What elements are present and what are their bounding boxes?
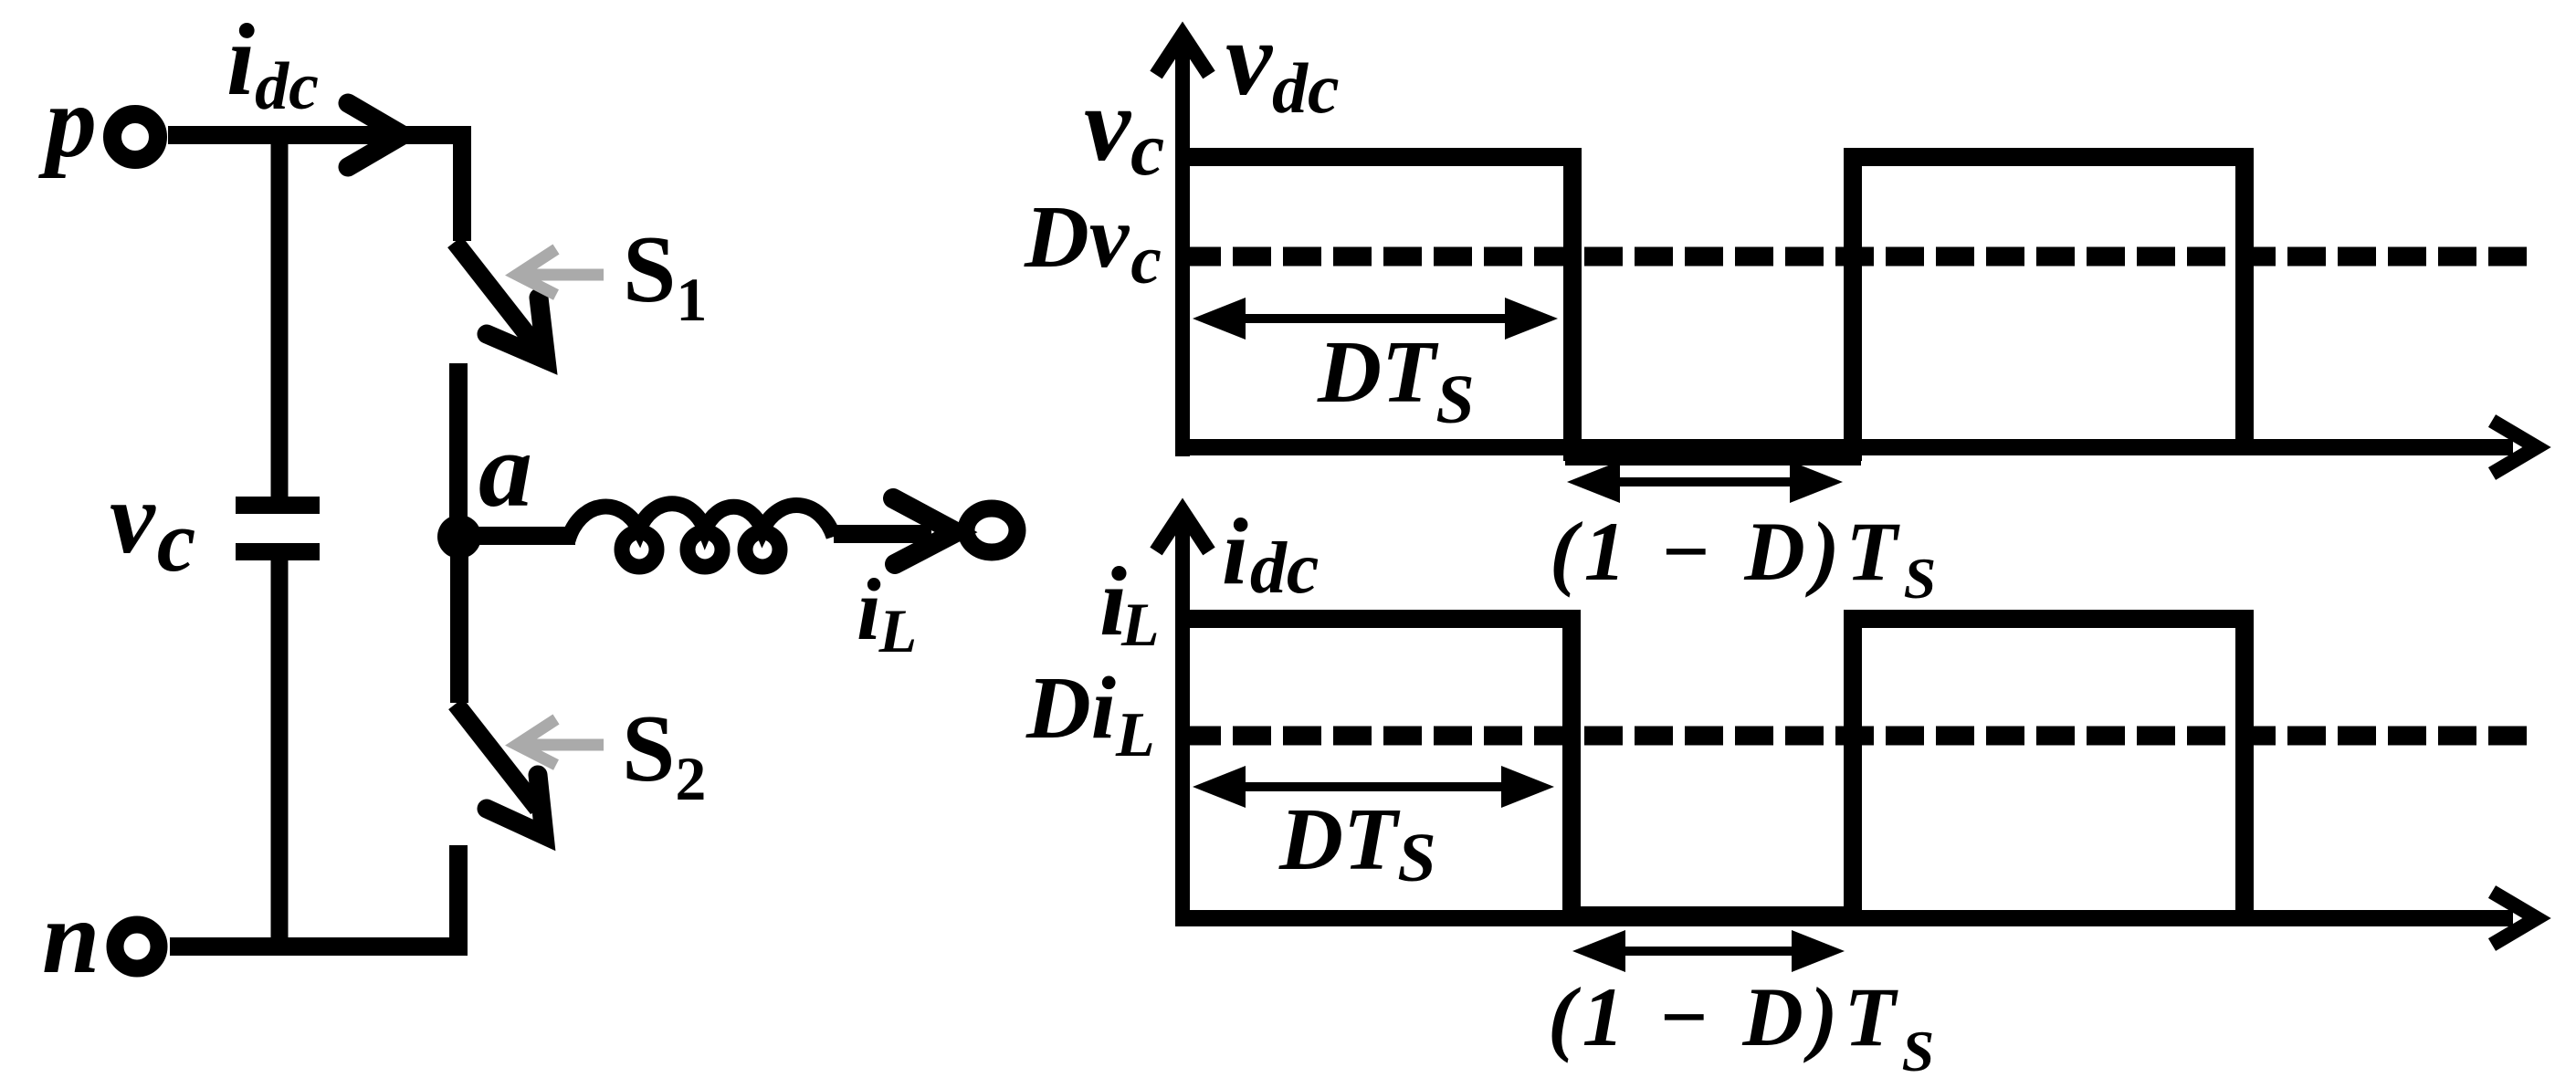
bottom plot waveform pulse 1 — [1177, 610, 1581, 924]
switch S1 blade — [455, 242, 537, 347]
bottom plot x-axis arrowhead — [2492, 892, 2537, 945]
bottom plot waveform pulse 2 — [1844, 610, 2254, 924]
wire capacitor branch lower — [271, 560, 289, 947]
top plot dashed average line Dv_c — [1183, 247, 2539, 267]
bottom plot (1-D)T_S interval arrow — [1614, 947, 1803, 956]
svg-text:a: a — [478, 410, 532, 529]
wire n to switch S2 — [170, 845, 468, 956]
capacitor C top plate — [236, 497, 320, 514]
current arrow i_dc — [348, 103, 403, 167]
terminal p — [112, 114, 158, 160]
output terminal — [966, 508, 1017, 552]
svg-text:n: n — [42, 879, 100, 995]
top plot waveform pulse 2 — [1845, 148, 2254, 461]
top plot (1-D)T_S interval arrow — [1609, 477, 1801, 486]
bottom plot y-axis — [1175, 524, 1190, 926]
svg-text:p: p — [38, 66, 97, 179]
capacitor C bottom plate — [236, 543, 320, 560]
svg-text:(1 − D)TS: (1 − D)TS — [1550, 505, 1942, 611]
inductor loop 2 — [688, 532, 722, 567]
inductor L coil — [568, 504, 834, 540]
bottom plot y-axis arrowhead — [1156, 511, 1209, 551]
bottom plot DT_S interval arrow — [1235, 782, 1516, 791]
bottom plot x-axis — [1175, 910, 2513, 926]
switch S2 blade — [456, 704, 538, 809]
top plot DT_S interval arrow — [1235, 314, 1516, 323]
top plot waveform low segment — [1565, 447, 1861, 466]
switch S1 lower wire — [449, 363, 468, 539]
wire inductor to output — [834, 525, 931, 543]
inductor loop 1 — [622, 532, 657, 567]
current arrow i_L — [893, 498, 956, 564]
top plot x-axis arrowhead — [2492, 421, 2537, 474]
bottom plot dashed average line Di_L — [1183, 727, 2539, 746]
top plot waveform pulse 1 — [1177, 148, 1582, 461]
terminal n — [115, 925, 159, 968]
gray actuation arrow S2 — [517, 719, 604, 765]
switch S1 upper wire — [453, 126, 471, 241]
gray actuation arrow S1 — [517, 249, 604, 295]
wire p to switch corner — [168, 126, 471, 144]
top plot x-axis — [1175, 439, 2513, 455]
switch S2 upper wire — [450, 537, 468, 703]
wire capacitor branch upper — [271, 135, 289, 497]
switch S2 blade arrowhead — [487, 775, 544, 835]
top plot y-axis arrowhead — [1156, 35, 1209, 75]
top plot y-axis — [1175, 47, 1190, 456]
switch S1 blade arrowhead — [487, 298, 546, 360]
inductor loop 3 — [745, 532, 780, 567]
node a junction dot — [437, 515, 481, 559]
bottom plot waveform low segment — [1564, 906, 1861, 925]
wire node a to inductor — [459, 527, 575, 545]
